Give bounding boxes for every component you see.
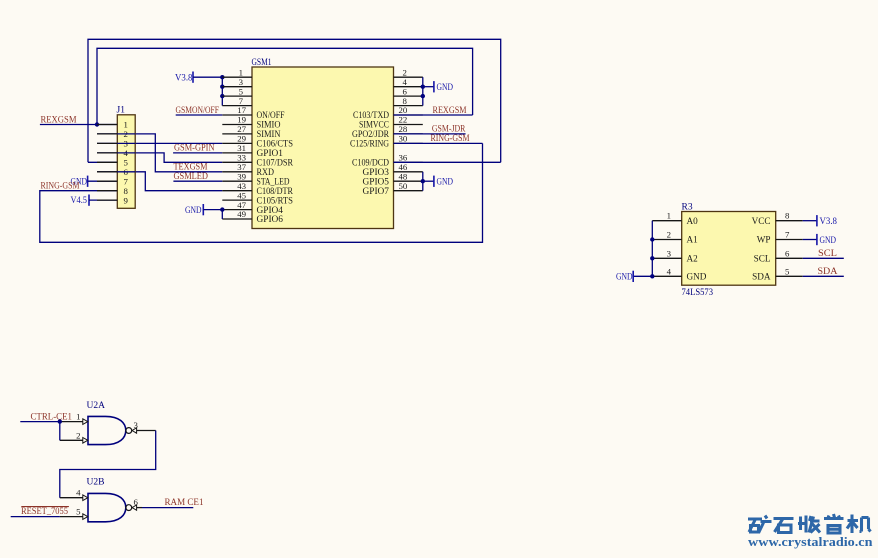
- svg-text:C105/RTS: C105/RTS: [257, 195, 294, 205]
- svg-text:ON/OFF: ON/OFF: [257, 110, 285, 120]
- svg-text:RING-GSM: RING-GSM: [431, 134, 470, 144]
- node SDA at R3 pin5: [803, 275, 844, 277]
- svg-text:C107/DSR: C107/DSR: [257, 158, 294, 168]
- svg-text:1: 1: [239, 67, 243, 77]
- svg-text:9: 9: [124, 195, 129, 205]
- ground GND at J1 pin7: [87, 176, 89, 187]
- svg-text:U2A: U2A: [87, 401, 106, 411]
- ground GND at R3 pin7: [803, 239, 817, 241]
- svg-text:V4.5: V4.5: [71, 196, 88, 206]
- R3 pin 7 WP: [757, 230, 803, 245]
- svg-text:GND: GND: [185, 206, 202, 216]
- svg-text:8: 8: [785, 211, 790, 221]
- node RING-GSM at GSM pin30: [394, 142, 483, 144]
- junction at R3 pin3: [650, 256, 654, 260]
- svg-text:2: 2: [76, 430, 80, 440]
- svg-text:7: 7: [124, 176, 129, 186]
- wire GND to J1 pin7: [88, 180, 118, 182]
- J1 pin4 wire over body: [117, 152, 135, 154]
- svg-text:3: 3: [134, 420, 139, 430]
- GSM pin 20 C103/TXD: [353, 105, 423, 120]
- svg-text:33: 33: [237, 153, 246, 163]
- wire V3.8 bus to GSM pins 1-7: [193, 76, 222, 78]
- wire vertical joining GSM pins 46,48,50: [422, 172, 424, 191]
- svg-text:27: 27: [237, 124, 246, 134]
- svg-text:1: 1: [76, 412, 80, 422]
- svg-text:SIMIN: SIMIN: [257, 129, 281, 139]
- svg-text:SCL: SCL: [818, 249, 837, 259]
- U2B pin 6 output: [132, 497, 142, 510]
- J1 pin 8: [97, 186, 129, 196]
- NAND gate U2B: [87, 478, 126, 522]
- J1 pin 3: [97, 139, 129, 149]
- GSM pin 28 GPO2/JDR: [352, 124, 423, 139]
- GSM pin 5: [222, 86, 252, 96]
- svg-text:GPIO7: GPIO7: [363, 186, 390, 196]
- svg-text:SDA: SDA: [818, 267, 838, 277]
- svg-text:74LS573: 74LS573: [682, 288, 714, 298]
- GSM pin 19 SIMIO: [222, 115, 281, 130]
- junction at GSM pin5: [220, 94, 224, 98]
- junction at R3 pin4: [650, 274, 654, 278]
- GSM pin 7: [222, 96, 252, 106]
- node GSMON/OFF at GSM pin17: [176, 114, 223, 116]
- svg-text:GSMON/OFF: GSMON/OFF: [176, 106, 220, 116]
- R3 pin 5 SDA: [752, 266, 803, 281]
- wire J1 pin2 to vertical jog: [97, 134, 222, 172]
- J1 pin 6: [97, 167, 129, 177]
- J1 pin 1: [97, 120, 128, 130]
- R3 pin 8 VCC: [752, 211, 803, 226]
- wire inner top loop horizontal (net REXGSM J1.1 to GSM pin20): [97, 48, 473, 124]
- GSM pin 22 SIMVCC: [359, 115, 423, 130]
- svg-text:U2B: U2B: [87, 478, 105, 488]
- node CTRL-CE1: [20, 421, 60, 423]
- svg-text:4: 4: [667, 266, 672, 276]
- GSM pin 47 GPIO4: [222, 200, 283, 215]
- GSM pin 30 C125/RING: [350, 134, 423, 149]
- svg-text:GND: GND: [820, 236, 837, 246]
- svg-text:30: 30: [399, 134, 408, 144]
- svg-text:GSM-GPIN: GSM-GPIN: [174, 144, 215, 154]
- svg-text:R3: R3: [682, 202, 693, 212]
- svg-text:GPO2/JDR: GPO2/JDR: [352, 129, 390, 139]
- svg-text:A0: A0: [687, 216, 699, 226]
- svg-text:28: 28: [399, 124, 408, 134]
- R3 pin 6 SCL: [754, 248, 803, 263]
- U2A output bubble: [126, 428, 132, 434]
- GSM pin 48 GPIO5: [363, 171, 423, 186]
- svg-text:GSM-JDR: GSM-JDR: [432, 125, 466, 135]
- node GSMLED at GSM pin39: [173, 180, 222, 182]
- wire vertical joining R3 pins 1-4: [651, 221, 653, 277]
- U2A pin 2: [60, 430, 88, 443]
- char ji: [847, 515, 871, 534]
- IC R3 74LS573: [682, 202, 776, 297]
- J1 pin 4: [97, 148, 129, 158]
- junction at R3 pin2: [650, 237, 654, 241]
- wire CTRL-CE1 to U2A pin2: [59, 422, 61, 441]
- svg-text:45: 45: [237, 190, 246, 200]
- svg-text:29: 29: [237, 134, 246, 144]
- RESET_7055 overbar: [21, 506, 69, 508]
- GSM pin 37 RXD: [222, 162, 274, 177]
- GSM pin 50 GPIO7: [363, 181, 423, 196]
- J1 pin 7: [97, 176, 129, 186]
- U2A pin 1: [60, 412, 88, 425]
- ground GND at GSM pins 47,49: [202, 204, 204, 215]
- junction on REXGSM wire at J1 pin1: [95, 122, 99, 126]
- char kuang: [748, 516, 772, 534]
- junction at GSM pin48: [421, 179, 425, 183]
- svg-text:36: 36: [399, 153, 408, 163]
- svg-text:2: 2: [403, 67, 407, 77]
- GSM pin 2: [394, 67, 423, 77]
- svg-text:C125/RING: C125/RING: [350, 139, 389, 149]
- R3 pin 4 GND: [652, 266, 706, 281]
- J1 pin 2: [97, 129, 128, 139]
- svg-text:17: 17: [237, 105, 246, 115]
- wire REXGSM to J1 pin1: [40, 124, 117, 126]
- node RESET_7055: [11, 516, 60, 518]
- svg-text:A1: A1: [687, 235, 699, 245]
- power V3.8 at GSM pins 1,3,5,7: [192, 72, 194, 83]
- svg-text:C109/DCD: C109/DCD: [352, 158, 389, 168]
- svg-text:5: 5: [785, 266, 790, 276]
- J1 pin6 wire over body: [117, 171, 135, 173]
- GSM pin 45 C105/RTS: [222, 190, 293, 205]
- GSM module U GSM1: [252, 58, 394, 229]
- svg-text:7: 7: [785, 230, 790, 240]
- junction CTRL-CE1 to both inputs: [58, 419, 62, 423]
- node GSM-GPIN at GSM pin31: [173, 152, 222, 154]
- GSM pin 43 C108/DTR: [222, 181, 293, 196]
- U2B pin 4: [60, 488, 88, 501]
- J1 pin3 wire over body: [117, 142, 135, 144]
- svg-text:1: 1: [667, 211, 671, 221]
- svg-text:V3.8: V3.8: [175, 74, 193, 84]
- GSM pin 33 C107/DSR: [222, 153, 293, 168]
- svg-text:A2: A2: [687, 254, 699, 264]
- wire REXGSM from GSM pin20 to inner top loop: [394, 114, 473, 116]
- wire J1 pin6 to GSM pin43: [97, 172, 222, 191]
- GSM pin 36 C109/DCD: [352, 153, 423, 168]
- U2B pin 5: [60, 507, 88, 520]
- GSM pin 27 SIMIN: [222, 124, 281, 139]
- power V4.5 at J1 pin9: [88, 195, 90, 206]
- junction at GSM pin3: [220, 85, 224, 89]
- svg-text:www.crystalradio.cn: www.crystalradio.cn: [748, 535, 873, 549]
- svg-text:REXGSM: REXGSM: [433, 106, 467, 116]
- char shi: [774, 519, 794, 533]
- char shou: [798, 516, 820, 533]
- node SCL at R3 pin6: [803, 257, 844, 259]
- ground GND at GSM pins 2-8: [423, 86, 434, 88]
- GSM pin 29 C106/CTS: [222, 134, 293, 149]
- svg-text:6: 6: [785, 248, 790, 258]
- svg-text:48: 48: [399, 171, 408, 181]
- svg-text:4: 4: [76, 488, 81, 498]
- svg-text:49: 49: [237, 209, 246, 219]
- R3 pin 3 A2: [652, 248, 698, 263]
- wire J1 pin3 to GSM pin29: [97, 142, 222, 144]
- wire RING-GSM from J1 pin8 down and across bottom to GSM pin30: [40, 143, 483, 242]
- svg-text:C106/CTS: C106/CTS: [257, 139, 294, 149]
- GSM pin 31 GPIO1: [222, 143, 283, 158]
- svg-text:2: 2: [667, 230, 671, 240]
- char yin: [824, 514, 844, 533]
- ground GND at R3 pins 1-4: [633, 275, 652, 277]
- GSM pin 8: [394, 96, 423, 106]
- logo text (crystalradio watermark): [748, 514, 871, 533]
- svg-text:3: 3: [667, 248, 672, 258]
- J1 pin 5: [97, 158, 129, 168]
- GSM pin 17 ON/OFF: [222, 105, 284, 120]
- R3 pin 2 A1: [652, 230, 698, 245]
- svg-text:5: 5: [76, 507, 81, 517]
- ground GND at GSM pins 46-50: [423, 180, 434, 182]
- svg-text:GND: GND: [687, 272, 707, 282]
- svg-text:GSM1: GSM1: [252, 58, 272, 68]
- svg-text:6: 6: [134, 497, 139, 507]
- svg-text:GPIO5: GPIO5: [363, 176, 390, 186]
- GSM pin 49 GPIO6: [222, 209, 283, 224]
- wire V4.5 to J1 pin9: [89, 199, 117, 201]
- junction at GSM pin6: [421, 94, 425, 98]
- svg-text:SDA: SDA: [752, 272, 771, 282]
- wire vertical joining GSM pins 1,3,5,7: [221, 77, 223, 105]
- svg-text:J1: J1: [117, 106, 126, 116]
- node GSM-JDR at GSM pin28: [394, 133, 466, 135]
- svg-text:5: 5: [239, 86, 244, 96]
- GSM pin 3: [222, 77, 252, 87]
- svg-text:CTRL-CE1: CTRL-CE1: [31, 412, 73, 422]
- svg-text:RAM CE1: RAM CE1: [165, 498, 204, 508]
- junction at GSM pin1: [220, 75, 224, 79]
- wire U2A pin3 to U2B pin4: [60, 431, 156, 498]
- svg-text:RESET_7055: RESET_7055: [21, 507, 68, 517]
- junction at GSM pin47: [220, 207, 224, 211]
- svg-text:VCC: VCC: [752, 216, 771, 226]
- svg-text:GND: GND: [437, 178, 454, 188]
- svg-text:SCL: SCL: [754, 254, 771, 264]
- svg-text:STA_LED: STA_LED: [257, 176, 290, 186]
- GSM pin 39 STA_LED: [222, 171, 290, 186]
- svg-text:39: 39: [237, 171, 246, 181]
- GSM pin 1: [222, 67, 252, 77]
- wire outer top loop horizontal (net to GSM pin36 / J1 pin5): [88, 39, 501, 162]
- svg-text:REXGSM: REXGSM: [41, 116, 78, 126]
- GSM pin 6: [394, 86, 423, 96]
- GSM pin 46 GPIO3: [363, 162, 423, 177]
- svg-text:6: 6: [403, 86, 408, 96]
- svg-text:V3.8: V3.8: [820, 217, 838, 227]
- svg-text:WP: WP: [757, 235, 771, 245]
- wire J1 pin5 from outer loop: [88, 161, 117, 163]
- J1 pin2 wire over body: [117, 133, 135, 135]
- connector J1: [117, 106, 136, 209]
- svg-text:50: 50: [399, 181, 408, 191]
- svg-text:C103/TXD: C103/TXD: [353, 110, 389, 120]
- wire vertical joining GSM pins 47,49: [221, 210, 223, 219]
- U2B output bubble: [126, 505, 132, 511]
- wire J1 pin4 to GSM pin33: [97, 153, 222, 162]
- J1 pin 9: [97, 195, 129, 205]
- svg-text:20: 20: [399, 105, 408, 115]
- svg-text:GSMLED: GSMLED: [174, 172, 209, 182]
- wire GSM pin36 to outer top loop: [394, 161, 501, 163]
- wire vertical joining GSM pins 2,4,6,8: [422, 77, 424, 105]
- power V3.8 at R3 pin8: [803, 220, 817, 222]
- svg-text:GND: GND: [437, 83, 454, 93]
- NAND gate U2A: [87, 401, 126, 445]
- svg-text:TEXGSM: TEXGSM: [174, 162, 208, 172]
- junction at GSM pin4: [421, 85, 425, 89]
- node RAM CE1: [142, 507, 193, 509]
- R3 pin 1 A0: [652, 211, 698, 226]
- GSM pin 4: [394, 77, 423, 87]
- wire GND to GSM pin47: [203, 209, 222, 211]
- svg-text:GPIO6: GPIO6: [257, 214, 284, 224]
- svg-text:5: 5: [124, 158, 129, 168]
- U2A pin 3 output: [132, 420, 156, 433]
- svg-text:GND: GND: [616, 273, 633, 283]
